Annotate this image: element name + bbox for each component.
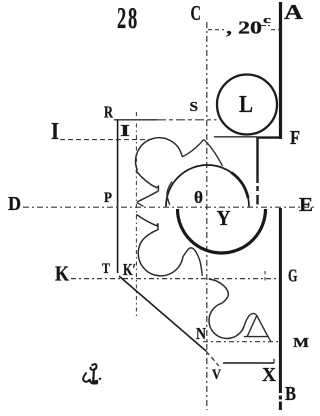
wire small vertical dashes crossing G line bbox=[264, 271, 266, 281]
wire V-X solid line bbox=[223, 362, 274, 364]
scallop B big circle arc bbox=[138, 230, 183, 276]
wire diagonal line bbox=[119, 276, 206, 351]
svg-text:F: F bbox=[290, 128, 300, 149]
svg-text:E: E bbox=[299, 194, 313, 216]
wire F horizontal line thick bbox=[257, 136, 282, 138]
wire A thick vertical line bbox=[279, 2, 282, 139]
scallop A right branch bbox=[204, 140, 223, 167]
triangle left side bbox=[247, 316, 256, 337]
wire D-E dashed centerline horizontal bbox=[23, 206, 316, 208]
wire V-X line end tick bbox=[273, 359, 275, 363]
wire diagonal dashed continuation bbox=[206, 351, 219, 366]
svg-text:G: G bbox=[288, 266, 298, 286]
scallop A arrowhead lower branch bbox=[137, 191, 158, 202]
svg-text:L: L bbox=[239, 92, 253, 118]
scallop A small tick bbox=[137, 203, 144, 207]
circle Y thicker NE arc overlay bbox=[231, 173, 248, 198]
wire K-T-G dashed line bbox=[71, 278, 279, 280]
circle L bbox=[217, 75, 277, 135]
scallop A flank fragment bbox=[167, 182, 172, 205]
wire R-S line dashed part bbox=[157, 119, 217, 121]
svg-text:θ: θ bbox=[194, 188, 203, 207]
svg-text:I: I bbox=[120, 121, 130, 140]
svg-text:c: c bbox=[263, 14, 271, 26]
svg-text:S: S bbox=[190, 99, 199, 114]
svg-text:V: V bbox=[212, 367, 221, 383]
scallop A arrowhead upper branch bbox=[136, 171, 159, 192]
svg-text:M: M bbox=[293, 335, 309, 350]
svg-text:P: P bbox=[104, 190, 112, 206]
svg-text:A: A bbox=[284, 0, 304, 24]
scallop B upper branch bbox=[136, 215, 158, 231]
triangle base line bbox=[244, 336, 269, 338]
svg-text:N: N bbox=[196, 324, 206, 343]
svg-text:Y: Y bbox=[217, 206, 231, 230]
wire I dashed line bbox=[60, 139, 150, 141]
svg-text:K: K bbox=[55, 262, 70, 286]
circle Y thin upper semicircle bbox=[166, 165, 249, 207]
svg-text:R: R bbox=[104, 103, 114, 122]
signature mark bottom left bbox=[83, 364, 101, 384]
scallop N top bump bbox=[209, 279, 229, 303]
svg-text:K′: K′ bbox=[123, 260, 136, 279]
scallop N big circle arc bbox=[209, 303, 244, 338]
wire F horizontal line thin bbox=[214, 136, 257, 138]
wire F-E vertical line bbox=[256, 137, 258, 205]
svg-text:, 20: , 20 bbox=[226, 18, 262, 38]
wire inner vertical dashed bbox=[135, 112, 137, 317]
triangle right extension bbox=[268, 336, 271, 341]
svg-text:X: X bbox=[262, 364, 277, 386]
wire 20-degree dashed line bbox=[208, 29, 224, 31]
wire centerline C vertical dashed bbox=[206, 22, 208, 410]
scallop A notch diagonal bbox=[182, 140, 204, 158]
circle Y thick lower semicircle bbox=[178, 209, 266, 253]
svg-text:T: T bbox=[102, 261, 110, 277]
wire N-M dashed line bbox=[203, 341, 279, 343]
scallop B right bump bbox=[189, 248, 203, 276]
svg-text:B: B bbox=[285, 383, 296, 405]
triangle near M apex and sides bbox=[250, 313, 268, 336]
scallop A big circle arc bbox=[136, 138, 182, 171]
scallop B notch bbox=[183, 249, 189, 257]
svg-text:D: D bbox=[8, 194, 21, 215]
svg-text:C: C bbox=[191, 1, 202, 25]
wire box left vertical P line bbox=[117, 120, 119, 274]
svg-text:28: 28 bbox=[117, 0, 139, 35]
wire E-B thick vertical line bbox=[279, 208, 282, 390]
svg-text:I: I bbox=[51, 119, 59, 145]
scallop N concave rise bbox=[244, 315, 250, 326]
wire R-S line solid part bbox=[114, 119, 157, 121]
